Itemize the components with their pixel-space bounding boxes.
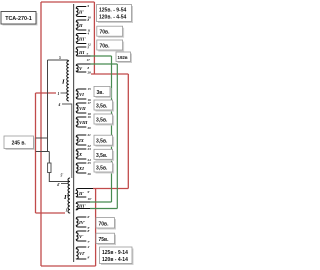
svg-text:4': 4' (56, 183, 60, 187)
wire black below fuse (49, 173, 70, 182)
wire red right upper (93, 2, 95, 74)
wire red tap1prime (36, 212, 66, 214)
svg-text:ТСА-270-1: ТСА-270-1 (5, 16, 32, 22)
svg-text:II': II' (78, 10, 85, 15)
label 125/120-14 (100, 247, 134, 265)
label 125/120-54 (97, 5, 134, 24)
svg-text:3,5в.: 3,5в. (96, 139, 108, 145)
svg-text:7': 7' (88, 240, 91, 244)
wire red x128 (127, 74, 129, 189)
wire red left tap vertical (35, 93, 37, 213)
wire green B vertical (116, 64, 118, 209)
wire red tap1 (36, 92, 57, 94)
svg-text:70в.: 70в. (99, 221, 110, 227)
label 3.5v 2 (94, 114, 114, 126)
svg-text:IV': IV' (78, 220, 86, 225)
label 192v (116, 52, 132, 63)
svg-text:II: II (78, 23, 83, 28)
svg-text:192в: 192в (118, 55, 128, 60)
winding II' (76, 7, 86, 17)
wire red frame top (41, 1, 94, 3)
winding I primary upper (67, 60, 69, 101)
wire black to fuse (48, 152, 50, 164)
wire black left vertical (47, 60, 49, 152)
winding III' lower (76, 202, 90, 210)
wire red right lower (95, 189, 97, 267)
winding X (76, 149, 86, 159)
svg-text:VI': VI' (79, 251, 86, 256)
svg-text:23: 23 (87, 147, 92, 151)
svg-text:5': 5' (61, 174, 64, 178)
winding VI' (76, 247, 86, 259)
svg-text:17: 17 (88, 101, 92, 105)
svg-text:III: III (78, 50, 85, 55)
wire red y74 (91, 73, 128, 75)
winding II' lower (76, 189, 93, 198)
svg-text:3,5в.: 3,5в. (96, 166, 108, 172)
label 3.5v 3 (94, 135, 114, 147)
winding XI (76, 163, 86, 173)
winding III' (76, 34, 86, 44)
wire red y188 (93, 188, 128, 190)
svg-text:19: 19 (88, 115, 92, 119)
svg-text:6': 6' (88, 215, 91, 219)
svg-text:I': I' (63, 194, 69, 201)
svg-text:75в.: 75в. (99, 237, 110, 243)
label 70v c (96, 218, 116, 230)
label 3v (94, 86, 112, 98)
winding II (76, 20, 86, 30)
label 3.5v 5 (94, 162, 114, 174)
label 70v a (97, 26, 124, 38)
svg-text:70в.: 70в. (100, 44, 111, 50)
svg-text:IX: IX (78, 138, 85, 143)
svg-text:VIII: VIII (79, 120, 88, 125)
svg-text:10': 10' (88, 197, 92, 201)
wire black pin4 down (62, 104, 72, 178)
svg-text:26: 26 (87, 172, 92, 176)
title box TCA-270-1 (1, 12, 38, 26)
winding VII (76, 103, 86, 113)
svg-text:25: 25 (87, 161, 92, 165)
wire green A horizontal bottom (90, 201, 112, 203)
svg-text:120в. - 4-54: 120в. - 4-54 (99, 15, 126, 21)
svg-text:28: 28 (87, 71, 92, 75)
svg-text:9': 9' (88, 190, 91, 194)
svg-text:120в - 4-14: 120в - 4-14 (102, 257, 128, 263)
wire green A horizontal top (91, 55, 112, 57)
wire black jog lower (36, 151, 50, 153)
svg-text:20: 20 (87, 126, 92, 130)
winding IV' (76, 217, 86, 227)
label 75v (96, 233, 116, 245)
wire red frame left (40, 2, 42, 266)
svg-text:VI: VI (79, 92, 84, 97)
svg-text:V': V' (79, 234, 84, 239)
svg-text:125в. - 9-54: 125в. - 9-54 (99, 8, 126, 14)
label 3.5v 4 (94, 149, 114, 161)
wire green A vertical (111, 56, 113, 202)
svg-text:245 в.: 245 в. (12, 141, 27, 147)
svg-text:9': 9' (88, 256, 91, 260)
svg-text:3,5в.: 3,5в. (96, 153, 108, 159)
svg-text:3,5в.: 3,5в. (96, 118, 108, 124)
svg-text:III': III' (78, 204, 86, 209)
label 3.5v 1 (94, 100, 114, 112)
winding V' (76, 231, 86, 241)
svg-text:21: 21 (87, 133, 92, 137)
svg-text:I: I (61, 79, 65, 86)
winding VIII (76, 117, 86, 127)
svg-text:17: 17 (87, 58, 91, 62)
winding III (76, 47, 90, 56)
svg-text:15: 15 (88, 87, 92, 91)
wire green B horizontal bottom (90, 208, 117, 210)
wire green B horizontal top (91, 63, 118, 65)
wire red frame bottom (41, 265, 96, 267)
svg-text:3,5в.: 3,5в. (96, 104, 108, 110)
winding IX (76, 135, 86, 145)
svg-text:VII: VII (79, 106, 86, 111)
svg-text:XI: XI (78, 166, 84, 171)
svg-text:1: 1 (58, 92, 60, 96)
svg-text:1': 1' (66, 209, 69, 213)
label 245v (4, 136, 35, 150)
winding I' primary lower (68, 178, 70, 213)
svg-text:8': 8' (88, 229, 91, 233)
fuse F1 (48, 163, 51, 173)
svg-text:4: 4 (58, 103, 61, 107)
svg-text:III': III' (78, 37, 86, 42)
wire black jog upper (36, 137, 48, 139)
core (73, 4, 75, 262)
winding VI (76, 89, 86, 99)
svg-text:3в.: 3в. (97, 90, 105, 96)
label 70v b (97, 40, 124, 52)
svg-text:70в.: 70в. (100, 30, 111, 36)
svg-text:4': 4' (87, 245, 91, 249)
wire black primary top lead (48, 59, 67, 61)
svg-text:4: 4 (87, 32, 90, 36)
svg-text:5: 5 (59, 56, 61, 60)
winding V (76, 64, 90, 72)
svg-text:125в - 9-14: 125в - 9-14 (102, 250, 128, 256)
svg-text:II': II' (78, 191, 85, 196)
